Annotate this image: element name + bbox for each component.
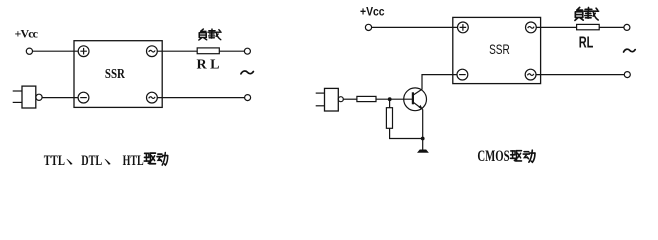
wire: +Vcc terminal to SSR pin + bbox=[33, 50, 79, 52]
terminal: +Vcc input (left) bbox=[26, 48, 32, 54]
ground bbox=[418, 150, 429, 153]
terminal: AC top (right) bbox=[624, 24, 630, 30]
gate G1 input stubs bbox=[13, 90, 22, 92]
junction node (emitter/ground rail) bbox=[421, 137, 425, 141]
wire: gate output to SSR pin - bbox=[42, 97, 78, 99]
pin + (left SSR top-left) bbox=[78, 46, 89, 57]
pin ~ (left SSR top-right) bbox=[147, 46, 158, 57]
label 负载 (right) bbox=[575, 7, 583, 20]
junction node (base divider) bbox=[388, 97, 392, 101]
wire: resistor R1 to transistor base bbox=[376, 98, 413, 100]
wire: SSR pin ~ to AC terminal (right bottom) bbox=[536, 74, 624, 76]
svg-text:R L: R L bbox=[197, 57, 220, 72]
caption: CMOS驱动 bbox=[477, 147, 535, 165]
gate G2 output bubble bbox=[338, 97, 343, 102]
wire: resistor RL to AC terminal (left top) bbox=[219, 50, 244, 52]
resistor R1 (series base resistor) bbox=[357, 96, 376, 101]
svg-text:DTL: DTL bbox=[81, 153, 102, 169]
wire: junction down to resistor R2 bbox=[389, 99, 391, 108]
wire: resistor RL to AC terminal (right top) bbox=[599, 26, 624, 28]
svg-text:+Vcc: +Vcc bbox=[15, 27, 39, 41]
caption: TTL、DTL、HTL驱动 bbox=[44, 153, 168, 169]
pin ~ (left SSR bottom-right) bbox=[147, 92, 158, 103]
AC source symbol ~ (left) bbox=[241, 71, 254, 74]
resistor RL (left) bbox=[197, 48, 219, 54]
wire: SSR pin ~ to resistor RL (right) bbox=[536, 26, 577, 28]
terminal: AC bottom (left) bbox=[245, 95, 251, 101]
terminal: +Vcc input (right) bbox=[365, 24, 371, 30]
transistor Q1 collector stroke bbox=[413, 89, 423, 95]
svg-text:RL: RL bbox=[579, 35, 594, 52]
wire: +Vcc terminal to SSR pin + (right) bbox=[372, 26, 458, 28]
svg-text:TTL: TTL bbox=[44, 153, 65, 169]
wire: SSR pin ~ to AC terminal (left bottom) bbox=[157, 97, 244, 99]
resistor RL (right) bbox=[577, 24, 600, 29]
transistor Q1 base bar bbox=[412, 92, 414, 104]
terminal: AC bottom (right) bbox=[624, 72, 630, 78]
pin ~ (right SSR top-right) bbox=[526, 22, 537, 33]
wire: resistor R2 to ground rail bbox=[390, 128, 423, 138]
label 负载 (left) bbox=[199, 29, 207, 40]
pin - (left SSR bottom-left) bbox=[78, 92, 89, 103]
wire: SSR pin ~ to resistor RL (left) bbox=[157, 50, 197, 52]
op-coupler box SSR (left) bbox=[74, 41, 162, 108]
svg-text:+Vcc: +Vcc bbox=[360, 4, 385, 18]
wire: emitter down to ground rail bbox=[422, 109, 424, 138]
logic gate G2 (CMOS driver, rectangle body) bbox=[325, 88, 339, 111]
logic gate G1 (TTL driver, rectangle body) bbox=[22, 86, 36, 108]
pin + (right SSR top-left) bbox=[458, 22, 469, 33]
transistor Q1 emitter stroke with arrow bbox=[413, 102, 423, 109]
pin ~ (right SSR bottom-right) bbox=[525, 69, 536, 80]
wire: collector up and to SSR pin - (right) bbox=[422, 75, 457, 89]
wire: junction to ground symbol bbox=[422, 139, 424, 151]
op-coupler box SSR (right) bbox=[453, 17, 541, 83]
terminal: AC top (left) bbox=[244, 48, 250, 54]
gate G1 output bubble bbox=[36, 94, 42, 100]
svg-text:SSR: SSR bbox=[489, 42, 510, 57]
AC source symbol ~ (right) bbox=[624, 49, 636, 52]
wire: gate output to resistor R1 bbox=[343, 98, 357, 100]
svg-text:CMOS: CMOS bbox=[477, 147, 509, 165]
transistor Q1 (NPN) body circle bbox=[404, 88, 427, 111]
resistor R2 (pull-down) bbox=[386, 108, 392, 129]
svg-text:SSR: SSR bbox=[105, 67, 126, 82]
gate G2 input stubs bbox=[316, 92, 325, 94]
pin - (right SSR bottom-left) bbox=[457, 69, 468, 80]
svg-text:HTL: HTL bbox=[123, 153, 144, 169]
